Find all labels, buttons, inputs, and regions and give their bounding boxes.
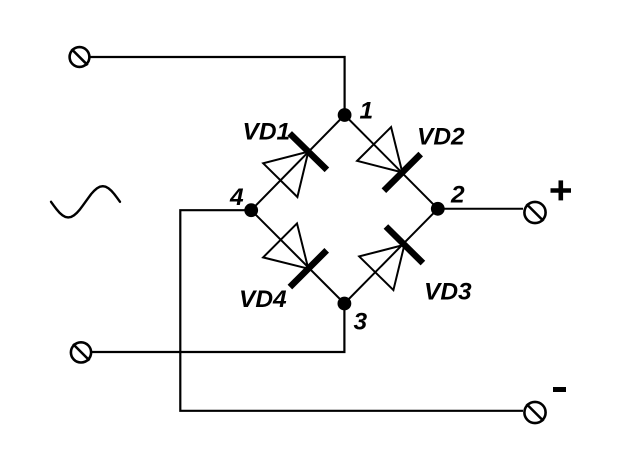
wire from top-left terminal to node 1 (90, 57, 345, 115)
svg-text:VD4: VD4 (239, 286, 287, 313)
wire bridge arm node1-node2 (345, 115, 438, 209)
wire from bottom-left terminal to node 3 (92, 304, 344, 353)
wire bridge arm node3-node2 (344, 209, 437, 304)
svg-text:4: 4 (229, 184, 244, 211)
svg-text:VD2: VD2 (417, 124, 465, 151)
svg-text:VD3: VD3 (424, 279, 472, 306)
svg-text:VD1: VD1 (243, 119, 291, 146)
diode VD3 (359, 227, 423, 291)
node 1 junction dot (338, 108, 352, 122)
wire node4 left then down to - terminal (180, 210, 523, 411)
wire bridge arm node4-node3 (251, 210, 344, 303)
node 4 junction dot (244, 203, 258, 217)
wire node2 to + terminal (438, 208, 523, 210)
terminal + output (524, 202, 545, 223)
plus sign (551, 180, 572, 200)
svg-text:2: 2 (450, 182, 465, 209)
minus sign (553, 387, 566, 392)
node 3 junction dot (338, 297, 352, 311)
diode VD4 (263, 223, 327, 287)
diode VD2 (357, 127, 421, 191)
terminal AC input bottom-left (71, 342, 91, 362)
svg-text:3: 3 (354, 309, 368, 336)
svg-text:1: 1 (360, 98, 374, 125)
node 2 junction dot (431, 202, 445, 216)
diode VD1 (263, 133, 327, 197)
wire bridge arm node4-node1 (251, 115, 344, 210)
terminal - output (524, 402, 545, 423)
AC sine symbol (51, 186, 120, 217)
terminal AC input top-left (70, 47, 90, 67)
